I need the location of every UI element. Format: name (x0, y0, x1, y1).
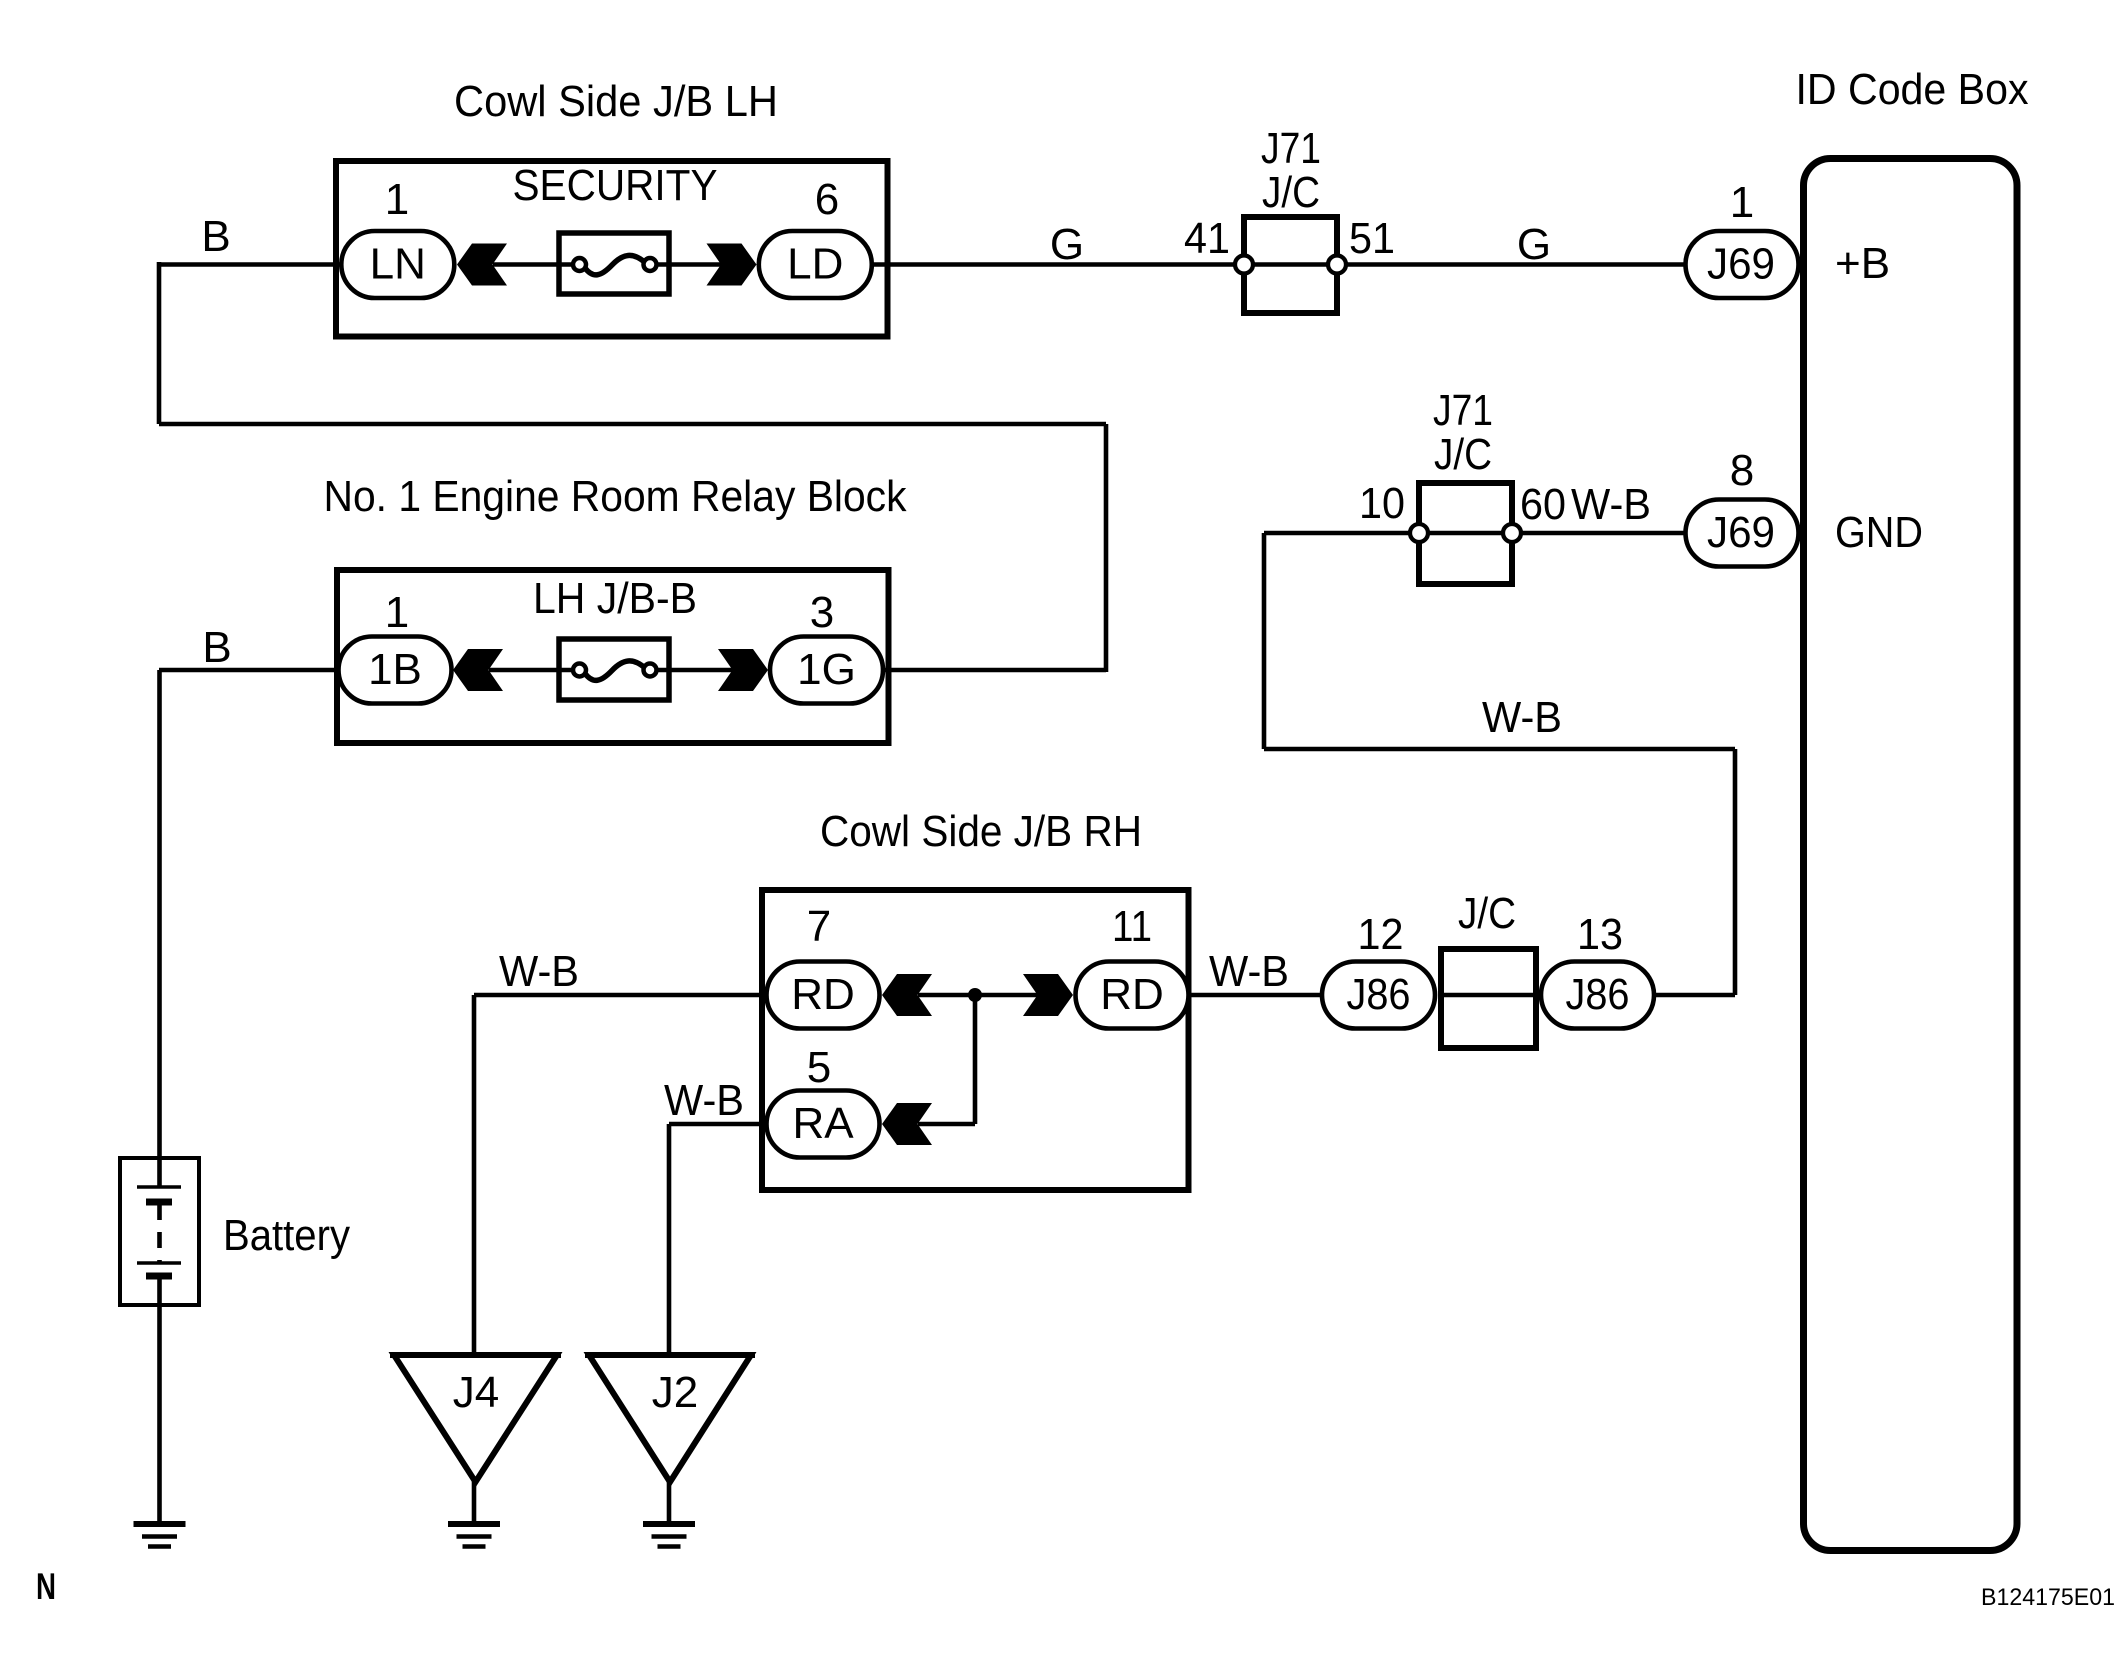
svg-text:J/C: J/C (1458, 889, 1516, 938)
svg-text:LH J/B-B: LH J/B-B (533, 574, 697, 623)
svg-text:J71: J71 (1433, 386, 1493, 435)
svg-text:11: 11 (1112, 902, 1152, 951)
svg-text:W-B: W-B (499, 947, 579, 996)
svg-text:5: 5 (807, 1043, 831, 1092)
svg-text:8: 8 (1730, 446, 1754, 495)
svg-text:J69: J69 (1707, 240, 1775, 289)
svg-text:B: B (202, 623, 231, 672)
svg-text:B: B (201, 212, 230, 261)
svg-text:1: 1 (385, 588, 409, 637)
svg-text:J86: J86 (1566, 970, 1630, 1019)
svg-text:J2: J2 (652, 1368, 698, 1417)
svg-text:1B: 1B (368, 645, 422, 694)
svg-text:GND: GND (1835, 508, 1923, 557)
svg-text:G: G (1517, 220, 1551, 269)
svg-text:6: 6 (815, 175, 839, 224)
svg-text:1G: 1G (797, 645, 856, 694)
svg-text:N: N (36, 1566, 56, 1607)
svg-text:51: 51 (1349, 214, 1395, 263)
svg-text:41: 41 (1184, 214, 1230, 263)
svg-text:Cowl Side J/B LH: Cowl Side J/B LH (454, 77, 778, 126)
svg-text:SECURITY: SECURITY (513, 161, 718, 210)
svg-text:1: 1 (385, 175, 409, 224)
svg-text:W-B: W-B (1571, 480, 1651, 529)
svg-text:12: 12 (1358, 910, 1404, 959)
svg-text:W-B: W-B (1209, 947, 1289, 996)
svg-text:3: 3 (810, 588, 834, 637)
svg-text:W-B: W-B (1482, 693, 1562, 742)
svg-text:J86: J86 (1347, 970, 1411, 1019)
svg-text:W-B: W-B (664, 1076, 744, 1125)
svg-text:No. 1 Engine Room Relay Block: No. 1 Engine Room Relay Block (324, 472, 908, 521)
svg-text:+B: +B (1835, 239, 1890, 288)
svg-text:J4: J4 (453, 1368, 499, 1417)
svg-text:RD: RD (1100, 970, 1164, 1019)
svg-text:B124175E01: B124175E01 (1981, 1584, 2115, 1611)
svg-text:ID Code Box: ID Code Box (1796, 65, 2029, 114)
svg-text:J/C: J/C (1434, 430, 1492, 479)
svg-text:13: 13 (1577, 910, 1623, 959)
svg-text:10: 10 (1359, 479, 1405, 528)
svg-text:Battery: Battery (223, 1211, 350, 1260)
svg-text:RD: RD (791, 970, 855, 1019)
svg-text:J/C: J/C (1262, 168, 1320, 217)
svg-text:1: 1 (1730, 178, 1754, 227)
svg-text:LD: LD (787, 240, 843, 289)
svg-text:J71: J71 (1261, 124, 1321, 173)
svg-text:60: 60 (1520, 480, 1566, 529)
svg-text:Cowl Side J/B RH: Cowl Side J/B RH (820, 807, 1142, 856)
svg-text:7: 7 (807, 902, 831, 951)
svg-text:LN: LN (370, 240, 426, 289)
svg-text:J69: J69 (1707, 508, 1775, 557)
svg-text:RA: RA (792, 1099, 854, 1148)
svg-text:G: G (1050, 220, 1084, 269)
